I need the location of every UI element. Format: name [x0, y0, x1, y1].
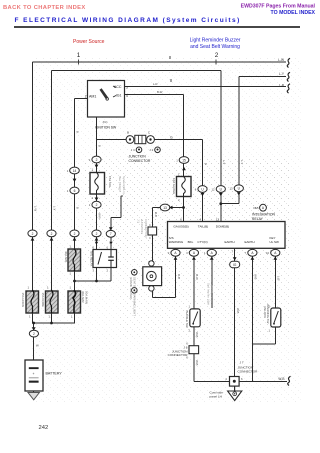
svg-text:See Interior Light: See Interior Light	[206, 283, 210, 305]
svg-text:7: 7	[110, 232, 112, 236]
svg-text:13: 13	[229, 187, 233, 191]
svg-text:10: 10	[266, 251, 270, 255]
svg-text:System(2B-D): System(2B-D)	[210, 283, 214, 301]
svg-text:TAIL(B): TAIL(B)	[198, 225, 208, 229]
svg-text:W-B: W-B	[254, 274, 258, 280]
svg-text:50A MAIN: 50A MAIN	[85, 291, 89, 304]
svg-text:W-B: W-B	[195, 360, 199, 366]
svg-text:WARNING: WARNING	[169, 240, 184, 244]
svg-text:10A GAUGE: 10A GAUGE	[172, 178, 176, 194]
svg-text:INTEGRATION: INTEGRATION	[252, 213, 275, 217]
svg-text:R-B: R-B	[177, 274, 181, 279]
svg-text:14: 14	[73, 169, 77, 173]
svg-text:EWD307F Pages From Manual: EWD307F Pages From Manual	[241, 4, 316, 10]
svg-text:W-B: W-B	[278, 377, 284, 381]
svg-text:15: 15	[182, 158, 186, 162]
svg-text:R-B: R-B	[154, 212, 158, 217]
svg-text:G: G	[204, 163, 208, 165]
svg-text:L-R: L-R	[279, 83, 285, 87]
svg-text:12: 12	[211, 187, 215, 191]
svg-text:6: 6	[74, 189, 76, 193]
svg-text:W-R: W-R	[98, 213, 102, 219]
svg-text:IG: IG	[233, 263, 237, 267]
svg-text:13: 13	[163, 206, 167, 210]
svg-text:2: 2	[96, 158, 98, 162]
svg-text:15A DOME: 15A DOME	[41, 293, 45, 308]
svg-text:See Twilight: See Twilight	[118, 176, 122, 192]
svg-text:1: 1	[27, 286, 29, 290]
svg-text:SEAT BELT WARNING LIGHT: SEAT BELT WARNING LIGHT	[133, 277, 137, 316]
svg-text:L-Y: L-Y	[279, 72, 285, 76]
svg-text:W: W	[36, 344, 39, 348]
svg-text:DOME(B): DOME(B)	[216, 225, 229, 229]
svg-text:Light Reminder Buzzer: Light Reminder Buzzer	[190, 38, 241, 44]
svg-text:CONNECTOR: CONNECTOR	[144, 219, 148, 238]
svg-text:ACC: ACC	[114, 85, 122, 89]
svg-text:C: C	[149, 236, 151, 240]
svg-text:3: 3	[126, 85, 128, 89]
svg-text:F ELECTRICAL WIRING DIAGRAM (S: F ELECTRICAL WIRING DIAGRAM (System Circ…	[15, 17, 241, 24]
svg-text:J 2: J 2	[149, 148, 153, 152]
svg-text:BUCKLE SW: BUCKLE SW	[185, 311, 189, 328]
svg-text:2: 2	[96, 232, 98, 236]
svg-text:1: 1	[77, 52, 81, 59]
svg-text:2: 2	[85, 94, 87, 98]
svg-text:IGNITION SW: IGNITION SW	[95, 126, 117, 130]
svg-text:CTY(D): CTY(D)	[197, 240, 207, 244]
svg-text:L-W: L-W	[34, 206, 38, 211]
svg-text:12: 12	[216, 218, 220, 222]
svg-text:15A HORN: 15A HORN	[21, 293, 25, 307]
svg-text:C: C	[149, 223, 151, 227]
svg-text:242: 242	[39, 425, 49, 431]
svg-text:System(2B-1): System(2B-1)	[122, 176, 126, 194]
svg-text:2: 2	[51, 232, 53, 236]
svg-text:L-Y: L-Y	[240, 160, 244, 164]
svg-text:L-W: L-W	[278, 58, 284, 62]
svg-text:CONNECTOR: CONNECTOR	[129, 159, 151, 163]
svg-text:(IG): (IG)	[103, 120, 108, 124]
svg-text:Power Source: Power Source	[73, 39, 105, 45]
svg-text:RELAY: RELAY	[252, 217, 264, 221]
svg-text:2: 2	[215, 52, 219, 59]
svg-text:JUNCTION: JUNCTION	[129, 155, 147, 159]
svg-text:J 7: J 7	[240, 361, 244, 365]
svg-text:B: B	[76, 131, 80, 133]
svg-text:GAUGE(B): GAUGE(B)	[173, 225, 188, 229]
svg-text:R-W: R-W	[195, 274, 199, 280]
svg-text:L-B: L-B	[277, 276, 281, 280]
svg-text:TO MODEL INDEX: TO MODEL INDEX	[271, 10, 316, 16]
svg-text:L-Y: L-Y	[53, 206, 57, 210]
svg-text:IG1: IG1	[116, 94, 122, 98]
svg-text:L-R: L-R	[153, 82, 158, 86]
svg-text:30A AM2: 30A AM2	[81, 291, 85, 303]
svg-text:EARTH: EARTH	[244, 240, 254, 244]
svg-text:2: 2	[74, 232, 76, 236]
svg-text:L-Y: L-Y	[222, 160, 226, 164]
svg-text:BATTERY: BATTERY	[46, 372, 63, 376]
svg-text:(COMB. METER): (COMB. METER)	[129, 277, 133, 299]
svg-text:W-B: W-B	[195, 332, 199, 338]
svg-text:AM1: AM1	[89, 94, 96, 98]
svg-text:panel LH: panel LH	[210, 395, 222, 399]
svg-text:and Seat Belt Warning: and Seat Belt Warning	[190, 44, 240, 50]
svg-text:BKL: BKL	[188, 240, 194, 244]
svg-text:B-W: B-W	[157, 90, 163, 94]
svg-text:J 3: J 3	[137, 219, 141, 223]
svg-text:B: B	[98, 145, 102, 147]
svg-text:CONNECTOR: CONNECTOR	[168, 353, 189, 357]
svg-text:40A AM1: 40A AM1	[64, 251, 68, 263]
svg-text:G: G	[170, 136, 173, 140]
svg-text:B: B	[127, 131, 129, 135]
svg-text:EARTH: EARTH	[224, 240, 234, 244]
svg-text:BACK TO CHAPTER INDEX: BACK TO CHAPTER INDEX	[3, 5, 86, 11]
svg-text:JUNCTION: JUNCTION	[140, 219, 144, 234]
svg-text:2: 2	[32, 232, 34, 236]
svg-text:UL SW: UL SW	[270, 240, 280, 244]
svg-text:15: 15	[253, 206, 257, 210]
svg-text:B: B	[76, 207, 80, 209]
svg-text:2: 2	[33, 332, 35, 336]
svg-text:J 1: J 1	[131, 148, 135, 152]
svg-text:4: 4	[126, 94, 128, 98]
svg-text:2: 2	[96, 203, 98, 207]
svg-text:CONNECTOR: CONNECTOR	[238, 370, 259, 374]
svg-text:W-B: W-B	[236, 308, 240, 314]
svg-text:UNLOCK: UNLOCK	[263, 306, 267, 318]
svg-text:+: +	[33, 372, 35, 376]
svg-text:15A TAIL: 15A TAIL	[108, 176, 112, 188]
svg-text:TAIL RELAY: TAIL RELAY	[89, 251, 93, 267]
